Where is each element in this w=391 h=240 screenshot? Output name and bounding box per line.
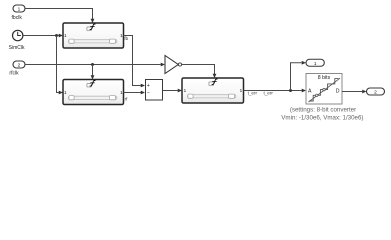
wire SimClk to block1 input — [23, 35, 59, 37]
svg-text:A: A — [308, 88, 312, 94]
svg-text:1: 1 — [314, 61, 317, 67]
svg-text:1: 1 — [240, 88, 243, 93]
subsystem U1 (fb counter) — [63, 23, 124, 48]
svg-text:+: + — [147, 83, 150, 89]
ADC staircase — [309, 79, 339, 101]
wire NOT out to block3 trigger — [182, 65, 215, 75]
wire sum out to block3 input — [163, 90, 178, 92]
NOT gate U3 — [165, 56, 178, 74]
svg-text:rfclk: rfclk — [9, 71, 19, 77]
node on SimClk wire — [55, 34, 58, 37]
svg-text:1: 1 — [64, 33, 67, 38]
inport 1 fbclk — [13, 5, 25, 12]
wire fbclk to block1 trigger — [25, 9, 93, 20]
svg-text:t_err: t_err — [248, 90, 258, 95]
wire t_err: block3 out to ADC input — [244, 90, 302, 92]
clock source SimClk — [13, 30, 23, 40]
inport 2 rfclk — [13, 61, 25, 68]
wire t_err branch up to outport 1 — [291, 63, 302, 91]
svg-text:8 bits: 8 bits — [318, 75, 331, 81]
outport 2 — [367, 88, 385, 95]
node on t_err wire — [289, 89, 292, 92]
subsystem U2 (rf counter) — [63, 80, 124, 105]
wire rf: block2 out to sum - input — [124, 92, 141, 94]
wire SimClk branch down to block2 input — [57, 36, 59, 93]
svg-text:Vmin: -1/30e6, Vmax: 1/30e6): Vmin: -1/30e6, Vmax: 1/30e6) — [281, 115, 363, 122]
node on rfclk wire — [91, 63, 94, 66]
ADC block U6 — [306, 74, 342, 105]
svg-text:2: 2 — [374, 90, 377, 96]
svg-text:(settings: 8-bit converter: (settings: 8-bit converter — [290, 107, 356, 114]
svg-text:1: 1 — [120, 90, 123, 95]
wire rfclk to NOT gate — [25, 64, 161, 66]
svg-text:1: 1 — [184, 88, 187, 93]
outport 1 — [306, 59, 324, 66]
svg-text:1: 1 — [64, 90, 67, 95]
svg-text:SimClk: SimClk — [9, 45, 25, 51]
svg-text:−: − — [147, 91, 150, 97]
svg-text:1: 1 — [120, 33, 123, 38]
svg-text:D: D — [336, 88, 340, 94]
svg-text:fbclk: fbclk — [12, 15, 23, 21]
svg-text:fb: fb — [124, 36, 128, 41]
sum block U4 — [146, 80, 163, 101]
svg-text:2: 2 — [18, 63, 21, 69]
svg-text:t_err: t_err — [263, 90, 273, 95]
wire rfclk branch down to block2 trigger — [92, 65, 94, 76]
ADC ramp line — [309, 78, 341, 102]
subsystem U5 (t_err) — [182, 78, 244, 103]
svg-text:1: 1 — [18, 7, 21, 13]
wire fb: block1 out to sum + input — [124, 36, 141, 86]
wire ADC out to outport 2 — [342, 91, 362, 93]
